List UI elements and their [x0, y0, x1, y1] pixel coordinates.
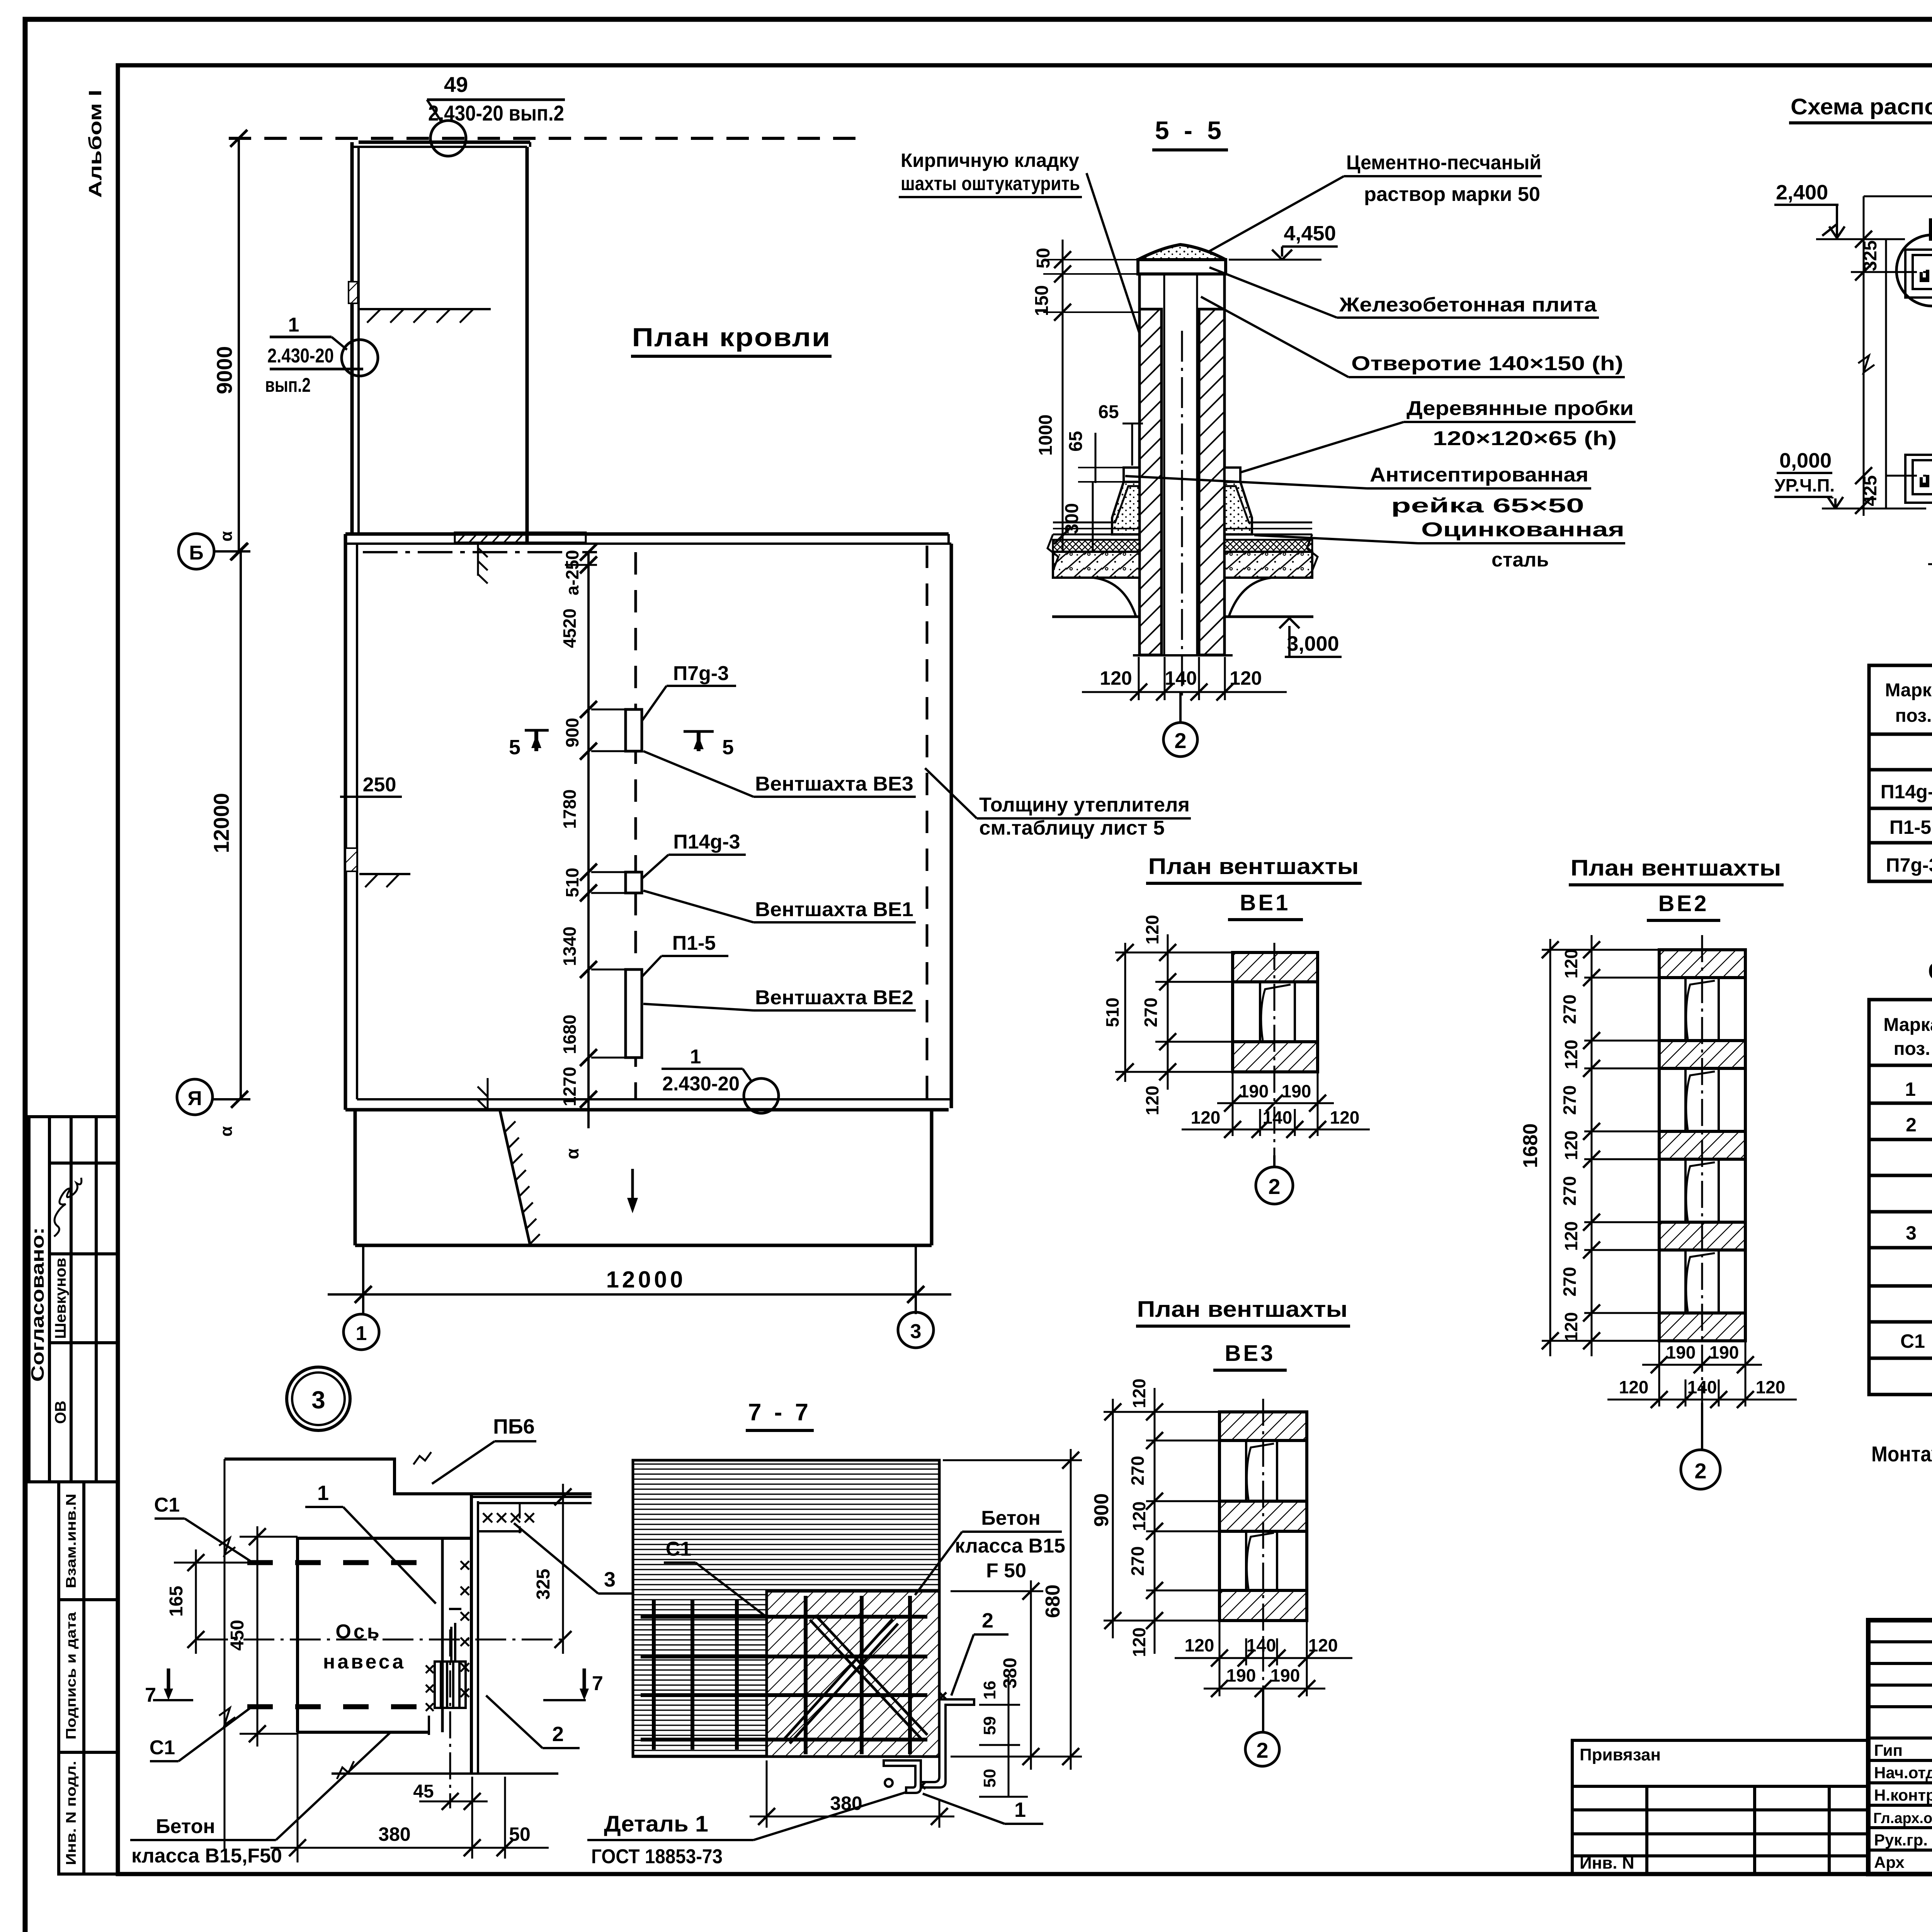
ceiling haunches: [1053, 578, 1136, 617]
svg-text:1: 1: [288, 314, 299, 336]
svg-text:65: 65: [1098, 402, 1119, 422]
svg-text:120: 120: [1191, 1107, 1221, 1128]
apron steel lines: [1053, 486, 1139, 522]
svg-text:С1: С1: [154, 1494, 180, 1516]
svg-text:2: 2: [1174, 728, 1186, 753]
vent shaft ВЕ2 rect: [626, 969, 642, 1058]
svg-text:Отверотие 140×150 (h): Отверотие 140×150 (h): [1351, 352, 1623, 375]
svg-text:Толщину утеплителя: Толщину утеплителя: [979, 794, 1190, 816]
svg-text:Б: Б: [189, 542, 203, 564]
section mark 5 right: [684, 730, 714, 733]
svg-text:П14g-3: П14g-3: [1881, 781, 1932, 803]
svg-text:190: 190: [1282, 1081, 1311, 1101]
svg-text:45: 45: [413, 1781, 434, 1802]
right apron flare: [1225, 482, 1252, 534]
duct inner walls: [1163, 274, 1165, 655]
wall cut bottom: [1133, 654, 1233, 656]
vent shaft ВЕ3 rect: [626, 709, 642, 751]
svg-text:270: 270: [1560, 995, 1580, 1024]
svg-text:120: 120: [1142, 915, 1162, 945]
svg-text:Цементно-песчаный: Цементно-песчаный: [1346, 151, 1541, 174]
svg-text:380: 380: [378, 1823, 410, 1845]
svg-text:Кирпичную кладку: Кирпичную кладку: [901, 150, 1079, 171]
G_GATE: [1774, 94, 1932, 573]
svg-text:Привязан: Привязан: [1580, 1745, 1661, 1764]
dimension chain extension lines: [565, 565, 626, 1058]
left outer dim line with breaks: [224, 1459, 226, 1851]
svg-text:190: 190: [1239, 1081, 1269, 1101]
svg-text:380: 380: [830, 1793, 862, 1814]
svg-text:поз.: поз.: [1895, 706, 1932, 726]
svg-text:680: 680: [1042, 1585, 1064, 1618]
svg-text:1: 1: [356, 1322, 367, 1345]
svg-text:120: 120: [1619, 1377, 1649, 1397]
ВЕ2 node circle 2: [1701, 1403, 1703, 1450]
vent shaft ВЕ1 rect: [626, 872, 642, 893]
svg-text:План вентшахты: План вентшахты: [1571, 855, 1781, 881]
12000 vertical dimension: [240, 551, 242, 1099]
svg-text:2: 2: [1268, 1174, 1280, 1199]
svg-text:Я: Я: [187, 1087, 202, 1110]
svg-text:2: 2: [982, 1609, 993, 1632]
svg-text:1: 1: [690, 1046, 701, 1068]
wooden plug left: [1124, 468, 1139, 482]
svg-text:класса В15: класса В15: [955, 1535, 1065, 1557]
svg-text:2: 2: [1694, 1459, 1706, 1483]
svg-text:П1-5: П1-5: [1889, 816, 1931, 838]
ВЕ3 bottom dims: [1175, 1621, 1352, 1696]
roof layers left: [1053, 528, 1139, 529]
G_TITLEBLOCK: [1572, 1620, 1932, 1904]
duct centerline: [1181, 331, 1183, 696]
grid axis Я: [177, 1079, 213, 1115]
svg-text:140: 140: [1247, 1635, 1276, 1655]
svg-text:5: 5: [509, 736, 520, 759]
svg-text:120: 120: [1185, 1635, 1214, 1655]
svg-text:Инв. N подл.: Инв. N подл.: [63, 1761, 79, 1865]
svg-text:120: 120: [1561, 1131, 1581, 1160]
svg-text:120: 120: [1230, 667, 1262, 689]
svg-text:Подпись и дата: Подпись и дата: [63, 1612, 79, 1740]
svg-text:Марка: Марка: [1883, 1015, 1932, 1035]
svg-text:рейка 65×50: рейка 65×50: [1391, 495, 1584, 517]
dim 680: [943, 1459, 1082, 1461]
upper wing walls: [350, 142, 354, 536]
svg-text:270: 270: [1141, 998, 1161, 1027]
gate top plate ПБ6: [1930, 220, 1932, 239]
svg-text:2.430-20: 2.430-20: [662, 1073, 740, 1095]
node circle 2: [1179, 692, 1182, 723]
svg-text:5: 5: [722, 736, 734, 759]
dims 380 / 50: [297, 1732, 299, 1862]
left apron flare: [1112, 482, 1139, 534]
svg-text:325: 325: [1860, 240, 1881, 271]
svg-text:2: 2: [552, 1723, 564, 1746]
svg-text:510: 510: [1102, 998, 1122, 1027]
svg-text:270: 270: [1128, 1546, 1148, 1576]
svg-text:12000: 12000: [209, 793, 233, 853]
svg-text:4520: 4520: [560, 609, 580, 648]
7-7 concrete insert: [767, 1591, 939, 1757]
svg-text:Деталь 1: Деталь 1: [604, 1811, 708, 1837]
wall cut line bottom: [332, 1772, 558, 1775]
svg-text:190: 190: [1709, 1342, 1739, 1362]
svg-text:190: 190: [1666, 1342, 1696, 1362]
svg-text:α: α: [217, 531, 236, 541]
break marks: [1048, 534, 1058, 571]
left brick wall: [1139, 309, 1162, 655]
eaves plate with hatch on top wall: [455, 532, 586, 543]
ВЕ3 left dims: [1104, 1388, 1219, 1654]
svg-text:3: 3: [1906, 1222, 1917, 1244]
box Взам. инв. N: [59, 1482, 118, 1600]
svg-text:П7g-3: П7g-3: [1886, 854, 1932, 876]
svg-text:120: 120: [1561, 949, 1581, 979]
svg-text:Инв. N: Инв. N: [1580, 1854, 1634, 1872]
corner detail circle: [1896, 235, 1932, 306]
bracket left top: [1905, 250, 1932, 298]
approval box (Согласовано): [29, 1117, 118, 1482]
mortar cap: [1138, 245, 1226, 260]
svg-text:50: 50: [509, 1823, 531, 1845]
svg-text:120: 120: [1561, 1040, 1581, 1070]
dim 450: [240, 1536, 298, 1538]
svg-text:65: 65: [1066, 431, 1086, 451]
svg-text:Спецификация элементов креплен: Спецификация элементов крепления ворот: [1928, 958, 1932, 984]
9000 dimension: [238, 138, 240, 552]
wooden plug right: [1225, 468, 1240, 482]
top extension line: [1864, 196, 1932, 197]
svg-text:16: 16: [980, 1681, 999, 1700]
G_STAMP: [27, 1117, 118, 1874]
svg-text:1000: 1000: [1036, 415, 1056, 456]
svg-text:270: 270: [1560, 1085, 1580, 1115]
svg-text:270: 270: [1560, 1267, 1580, 1297]
hinge axis: [197, 1639, 562, 1641]
svg-text:325: 325: [533, 1569, 554, 1600]
hinge axis top: [1886, 271, 1932, 273]
G_VENTS: [1090, 854, 1797, 1766]
svg-text:50: 50: [1033, 248, 1054, 268]
svg-text:Схема расположения элементов к: Схема расположения элементов крепления в…: [1791, 94, 1932, 119]
slope diagonal with hatch: [500, 1111, 530, 1245]
G_DETAIL: [130, 1399, 1082, 1868]
svg-text:120×120×65 (h): 120×120×65 (h): [1433, 427, 1617, 450]
svg-text:120: 120: [1100, 667, 1132, 689]
svg-text:Вентшахта ВЕ3: Вентшахта ВЕ3: [755, 773, 913, 795]
svg-text:Альбом I: Альбом I: [85, 90, 105, 198]
svg-text:7 - 7: 7 - 7: [748, 1399, 811, 1426]
svg-text:0,000: 0,000: [1779, 449, 1832, 472]
diagonal channels: [784, 1615, 927, 1743]
svg-text:3,000: 3,000: [1287, 632, 1339, 655]
svg-text:900: 900: [1090, 1493, 1113, 1527]
svg-text:900: 900: [562, 718, 582, 748]
svg-text:1680: 1680: [1519, 1123, 1542, 1168]
svg-text:П14g-3: П14g-3: [673, 831, 740, 853]
ВЕ1 shaft walls: [1233, 952, 1318, 982]
svg-text:5 - 5: 5 - 5: [1155, 116, 1225, 145]
grid circle 3: [898, 1312, 934, 1348]
left dimension stack: [1062, 240, 1064, 553]
svg-text:Марка: Марка: [1885, 680, 1932, 701]
svg-text:С1: С1: [1900, 1330, 1925, 1352]
weld x-marks top: [483, 1513, 534, 1522]
grid circle 1: [344, 1314, 379, 1350]
ВЕ2 left dims: [1542, 935, 1659, 1356]
svg-text:ВЕ3: ВЕ3: [1225, 1341, 1276, 1366]
section mark 7 right: [583, 1668, 586, 1696]
svg-text:см.таблицу лист 5: см.таблицу лист 5: [979, 817, 1165, 839]
signature rows text: [1873, 1741, 1932, 1872]
section mark 7 left: [167, 1668, 170, 1696]
svg-text:120: 120: [1756, 1377, 1786, 1397]
box Инв. N подл.: [59, 1752, 118, 1874]
svg-text:9000: 9000: [212, 346, 236, 395]
dim 325: [562, 1484, 564, 1654]
svg-text:3: 3: [604, 1568, 616, 1591]
left signature table columns: [1868, 1620, 1932, 1873]
svg-text:2.430-20: 2.430-20: [267, 345, 334, 367]
section mark 5 left: [534, 730, 538, 751]
svg-text:Ось: Ось: [335, 1621, 381, 1643]
roof layers right: [1225, 528, 1312, 529]
svg-text:1: 1: [1905, 1078, 1916, 1100]
svg-text:Железобетонная плита: Железобетонная плита: [1339, 294, 1597, 316]
table 2 header: [1883, 1015, 1932, 1063]
svg-text:Взам.инв.N: Взам.инв.N: [63, 1494, 79, 1588]
svg-text:190: 190: [1270, 1665, 1300, 1685]
svg-text:С1: С1: [150, 1736, 175, 1759]
7-7 masonry block: [633, 1460, 939, 1757]
svg-text:α: α: [562, 1148, 582, 1159]
table 2 rows: [1900, 1077, 1932, 1390]
svg-text:Гл.арх.отд: Гл.арх.отд: [1873, 1810, 1932, 1827]
ВЕ1 bottom dims: [1182, 1072, 1370, 1136]
rebar mesh bars: [641, 1596, 927, 1754]
svg-text:270: 270: [1560, 1176, 1580, 1206]
table 1 header text: [1885, 679, 1932, 726]
svg-text:7: 7: [145, 1684, 156, 1706]
gate vertical plate: [441, 1538, 444, 1732]
svg-text:поз.: поз.: [1894, 1039, 1930, 1059]
svg-text:120: 120: [1330, 1107, 1360, 1128]
svg-text:120: 120: [1142, 1086, 1162, 1116]
svg-text:59: 59: [980, 1716, 999, 1735]
svg-text:План кровли: План кровли: [632, 323, 831, 352]
steel angle right: [916, 1692, 974, 1789]
wall break hatch left (250 zone): [345, 848, 357, 871]
svg-text:ОВ: ОВ: [52, 1401, 69, 1424]
left dim line: [1863, 196, 1865, 516]
svg-text:2: 2: [1906, 1114, 1917, 1136]
svg-text:Арх: Арх: [1874, 1853, 1905, 1871]
anchor bolt assembly: [435, 1609, 466, 1708]
svg-text:300: 300: [1062, 503, 1082, 534]
svg-text:УР.Ч.П.: УР.Ч.П.: [1774, 475, 1835, 495]
svg-text:3: 3: [910, 1320, 922, 1343]
ВЕ1 node circle 2: [1273, 1155, 1276, 1167]
svg-text:1: 1: [317, 1481, 329, 1505]
svg-text:α: α: [217, 1126, 236, 1136]
svg-text:3: 3: [311, 1386, 325, 1414]
attachment table (Привязан): [1572, 1740, 1868, 1874]
svg-text:сталь: сталь: [1492, 549, 1549, 571]
dim 380 right: [951, 1590, 1043, 1592]
bottom wall break hatch: [478, 1078, 488, 1110]
svg-text:ВЕ1: ВЕ1: [1240, 890, 1291, 915]
chain labels: [560, 550, 582, 1159]
svg-text:шахты оштукатурить: шахты оштукатурить: [901, 173, 1080, 194]
svg-text:а-250: а-250: [562, 550, 582, 595]
weld x-marks along plate: [461, 1561, 469, 1697]
concrete slab cap: [1138, 260, 1226, 274]
ВЕ2 bottom dims: [1607, 1341, 1797, 1406]
svg-text:270: 270: [1128, 1456, 1148, 1486]
right brick wall: [1199, 309, 1225, 655]
ВЕ2 shaft walls: [1659, 950, 1745, 978]
svg-text:12000: 12000: [606, 1267, 686, 1293]
svg-text:ГОСТ 18853-73: ГОСТ 18853-73: [591, 1845, 723, 1868]
svg-text:510: 510: [562, 868, 582, 898]
table 1 grid: [1869, 665, 1932, 881]
dim 380 bottom: [766, 1760, 768, 1828]
box Подпись и дата: [59, 1600, 118, 1752]
ВЕ1 left dims: [1115, 934, 1233, 1090]
svg-text:120: 120: [1561, 1221, 1581, 1251]
svg-text:Оцинкованная: Оцинкованная: [1421, 519, 1624, 541]
svg-text:навеса: навеса: [323, 1651, 406, 1673]
big rectangle of roof: [345, 532, 949, 536]
svg-text:1780: 1780: [560, 789, 580, 829]
break hatch under plate: [478, 545, 488, 583]
svg-text:Бетон: Бетон: [981, 1507, 1041, 1529]
vent axis dashed lines: [634, 552, 637, 1099]
svg-text:140: 140: [1687, 1377, 1717, 1397]
svg-text:7: 7: [592, 1672, 603, 1695]
table 1 rows: [1881, 745, 1932, 877]
svg-text:380: 380: [1000, 1658, 1020, 1689]
wall stub lines under slab: [1138, 274, 1141, 310]
title block frame: [1868, 1620, 1932, 1874]
svg-text:425: 425: [1860, 475, 1881, 506]
svg-text:вып.2: вып.2: [265, 374, 311, 396]
svg-text:Рук.гр.: Рук.гр.: [1874, 1831, 1928, 1849]
svg-text:140: 140: [1263, 1107, 1293, 1128]
svg-text:класса В15,F50: класса В15,F50: [131, 1845, 282, 1867]
svg-text:ВЕ2: ВЕ2: [1658, 891, 1709, 916]
svg-text:120: 120: [1308, 1635, 1338, 1655]
svg-text:120: 120: [1129, 1379, 1149, 1408]
dashed eave line top: [229, 137, 864, 140]
svg-text:Н.контр.: Н.контр.: [1874, 1786, 1932, 1804]
svg-text:Бетон: Бетон: [156, 1815, 215, 1838]
detail 1: lintel outline: [224, 1459, 592, 1494]
svg-text:Деревянные пробки: Деревянные пробки: [1406, 397, 1634, 420]
grid axis Б: [363, 551, 597, 553]
svg-text:С1: С1: [666, 1538, 691, 1560]
hinge axis bottom: [1886, 475, 1932, 477]
svg-text:250: 250: [363, 774, 396, 796]
bottom dims 120 140 120: [1139, 657, 1225, 700]
anchor axis vertical: [449, 1629, 451, 1808]
svg-text:План вентшахты: План вентшахты: [1148, 854, 1359, 879]
wall corner column: [470, 1494, 473, 1774]
svg-text:140: 140: [1165, 667, 1197, 689]
svg-text:1270: 1270: [560, 1067, 580, 1106]
svg-text:4,450: 4,450: [1284, 222, 1336, 245]
12000 bottom dimension: [362, 1245, 364, 1314]
svg-text:раствор марки 50: раствор марки 50: [1364, 183, 1540, 206]
svg-text:Согласовано:: Согласовано:: [27, 1227, 48, 1382]
dimension chain line: [587, 552, 590, 1128]
svg-text:Антисептированная: Антисептированная: [1370, 464, 1588, 486]
table 2 grid: [1869, 1000, 1932, 1395]
G_S55: [899, 116, 1636, 757]
dim 165: [174, 1562, 247, 1564]
ВЕ3 shaft walls: [1219, 1412, 1307, 1440]
C1 mesh dashed lines: [247, 1560, 428, 1565]
G_PLAN: [177, 72, 1191, 1430]
svg-text:Вентшахта ВЕ1: Вентшахта ВЕ1: [755, 898, 913, 921]
svg-text:П7g-3: П7g-3: [673, 662, 729, 685]
svg-text:1: 1: [1014, 1798, 1026, 1821]
svg-text:F 50: F 50: [986, 1560, 1026, 1582]
signature: [54, 1178, 82, 1236]
wall break hatch upper-left: [349, 282, 358, 303]
gate frame: [298, 1538, 471, 1732]
svg-text:50: 50: [980, 1769, 999, 1788]
svg-text:Монтажную сварку выполнять эле: Монтажную сварку выполнять электродами Э…: [1871, 1442, 1932, 1466]
ВЕ3 node circle 2: [1262, 1689, 1264, 1732]
bottom angle piece: [884, 1760, 921, 1793]
svg-text:П1-5: П1-5: [672, 932, 716, 954]
svg-text:165: 165: [166, 1586, 187, 1617]
svg-text:120: 120: [1561, 1312, 1581, 1342]
svg-text:190: 190: [1226, 1665, 1256, 1685]
lower wing: [354, 1110, 357, 1245]
svg-text:2,400: 2,400: [1776, 181, 1828, 204]
svg-text:49: 49: [444, 72, 468, 97]
detail marker circle 3: [287, 1367, 350, 1430]
svg-text:Гип: Гип: [1874, 1741, 1903, 1759]
bracket left bottom: [1905, 455, 1932, 503]
svg-text:Нач.отд: Нач.отд: [1874, 1764, 1932, 1782]
svg-text:120: 120: [1129, 1502, 1149, 1531]
svg-text:1340: 1340: [560, 927, 580, 966]
svg-text:Вентшахта ВЕ2: Вентшахта ВЕ2: [755, 986, 913, 1009]
svg-text:120: 120: [1129, 1628, 1149, 1657]
G_TABLES: [1869, 637, 1932, 1466]
svg-text:1680: 1680: [560, 1015, 580, 1054]
svg-text:150: 150: [1032, 285, 1052, 316]
svg-text:2: 2: [1256, 1738, 1268, 1762]
svg-text:План вентшахты: План вентшахты: [1137, 1297, 1348, 1322]
svg-text:ПБ6: ПБ6: [493, 1415, 535, 1438]
svg-text:450: 450: [227, 1620, 248, 1651]
svg-text:Шевкунов: Шевкунов: [52, 1258, 69, 1339]
flow arrow: [631, 1169, 634, 1207]
